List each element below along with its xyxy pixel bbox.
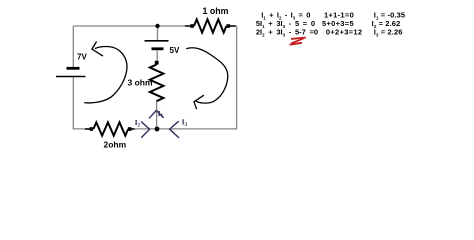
wire battery B1 to resistor R3 [156, 49, 158, 61]
svg-text:I1: I1 [158, 110, 164, 119]
svg-text:2ohm: 2ohm [104, 140, 127, 150]
wire bottom middle segment [131, 128, 156, 130]
svg-text:I2: I2 [135, 119, 141, 128]
svg-text:5V: 5V [170, 46, 180, 55]
wire bottom right segment [158, 128, 237, 130]
wire bottom left segment [73, 128, 90, 130]
wire left side upper [72, 26, 74, 68]
svg-text:1 ohm: 1 ohm [203, 6, 229, 16]
wire left side lower [72, 77, 74, 129]
current arrow I3 (points left into node B) [170, 121, 179, 138]
battery B2 (7V) [56, 68, 86, 76]
svg-text:I3 = 2.26: I3 = 2.26 [374, 28, 403, 38]
battery B1 (5V) [145, 41, 169, 49]
red marker scribble under 5-7 [290, 38, 306, 45]
svg-text:0+2+3=12: 0+2+3=12 [326, 28, 362, 37]
wire top right segment [228, 25, 237, 27]
current arrow I1 (points up along R3 branch) [149, 110, 164, 118]
wire top left segment [73, 25, 192, 27]
node B (bottom junction dot) [155, 127, 160, 132]
node A (top junction dot) [155, 24, 159, 28]
wire resistor R3 to bottom node [156, 101, 158, 130]
svg-text:2I2 + 3I3 - 5-7 =0: 2I2 + 3I3 - 5-7 =0 [256, 28, 318, 38]
wire right side [236, 26, 238, 129]
resistor R1 (1 ohm, top) [185, 19, 236, 32]
resistor R2 (2 ohm, bottom) [85, 122, 135, 135]
resistor R3 (3 ohm, middle vertical) [150, 61, 164, 101]
loop arrow left (mesh 1, counterclockwise) [84, 42, 127, 103]
wire battery B1 top stub [157, 26, 159, 41]
current arrow I2 (points right into node B) [141, 122, 150, 138]
loop arrow right (mesh 2, clockwise) [186, 48, 227, 109]
svg-text:7V: 7V [77, 52, 87, 61]
svg-text:3 ohm: 3 ohm [128, 78, 153, 88]
svg-text:I3: I3 [182, 119, 188, 128]
